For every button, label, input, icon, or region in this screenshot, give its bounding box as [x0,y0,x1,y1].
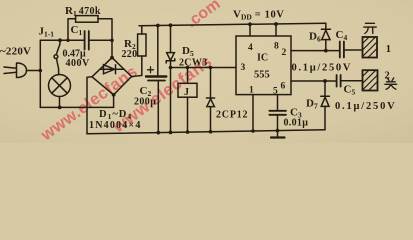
node C3 ground junction [276,129,280,133]
svg-text:400V: 400V [66,58,91,69]
svg-text:0.1μ/250V: 0.1μ/250V [335,101,397,112]
wire pin4 and pin8 stubs [250,24,276,36]
capacitor C3 [269,111,286,115]
label guan (off) chinese [385,78,397,89]
bridge inner diode symbol [100,68,124,70]
op-amp timer IC 555 U1 [236,36,291,95]
node R1 left junction [66,39,69,42]
wire R2 top stub [141,26,143,34]
wire bridge bottom stub [113,95,115,108]
wire relay bottom lead [187,97,189,132]
svg-text:R1470k: R1470k [65,5,101,18]
wire R1 right lead to bridge [98,19,112,58]
svg-text:8: 8 [274,42,279,52]
diode 2CP12 [206,97,214,99]
wire lamp bottom [59,97,61,108]
polarity plus mark C2 [148,67,154,73]
wire D7 bottom lead [324,106,326,129]
node D7 top junction [323,79,327,83]
wire VDD top rail [139,23,326,26]
node bridge top vertex [110,56,114,60]
capacitor C2 electrolytic plates [146,75,166,77]
label kai (on) chinese [364,23,376,33]
node switch junction [58,38,62,42]
AC plug body [17,63,27,78]
wire D5 top lead [170,25,172,52]
node bridge bottom vertex [112,93,116,97]
wire C2 bottom lead [157,81,159,133]
ground symbol [277,131,279,138]
node pin8 rail junction [274,22,278,26]
node 2CP12 top junction [209,66,213,70]
node 2CP12 ground junction [209,130,213,134]
resistor R2 [138,34,146,56]
wire C1 right [89,39,112,41]
capacitor C5 [337,75,341,87]
wire C4 to plate 1 [345,49,363,51]
wire 2CP12 bottom lead [210,107,212,132]
wire R1 left lead [68,19,76,41]
wire AC bottom rail [40,106,113,108]
svg-text:1: 1 [386,44,391,55]
wire ground bottom rail [87,130,325,134]
bridge rectifier D1-D4 diamond [92,58,132,95]
touch plate 1 electrode [363,37,378,58]
node D6 bottom junction [324,49,328,53]
wire 2CP12 top lead [210,68,212,99]
zener diode D5 [167,53,175,61]
wire D5 bottom lead [170,61,172,133]
wire D6 top stub [325,23,327,29]
wire bridge left to ground rail [87,77,92,134]
node plug junction [39,69,43,73]
capacitor C4 [340,42,344,58]
wire top-left horizontal to C1 [40,39,84,41]
node R1 right junction [110,39,114,43]
relay coil J [178,83,197,97]
node C2 ground junction [156,131,160,135]
wire 555 pin2 row [291,50,339,52]
svg-text:2CP12: 2CP12 [216,110,248,121]
svg-text:1N4004×4: 1N4004×4 [89,120,142,131]
svg-text:~220V: ~220V [0,46,31,58]
AC plug prongs [4,67,17,74]
wire bridge right to R2 bottom [132,56,142,77]
node D5 ground junction [169,131,173,135]
svg-text:2: 2 [282,48,287,58]
node lamp-rail junction [58,106,62,110]
node relay ground junction [186,130,190,134]
svg-text:IC: IC [257,53,268,64]
node pin4 rail junction [248,22,252,26]
switch contact J1-1 [56,40,60,54]
diode D7 [321,95,330,97]
svg-text:220: 220 [122,49,138,60]
node pin1 ground junction [251,129,255,133]
wire D7 top lead [324,81,326,96]
diode D6 [321,28,330,30]
capacitor C1 [85,31,89,50]
wire switch to lamp [57,59,59,75]
svg-text:555: 555 [254,70,270,81]
svg-text:VDD= 10V: VDD= 10V [233,9,285,22]
svg-text:0.01μ: 0.01μ [284,118,309,129]
svg-text:200μ: 200μ [134,97,156,108]
wire pin1 down [252,95,254,132]
wire relay top lead [187,68,189,84]
touch plate 2 electrode [363,70,378,90]
wire 555 pin6 row [291,80,336,82]
node pin3 wire left junction [169,66,173,70]
svg-text:4: 4 [248,43,253,53]
svg-text:6: 6 [281,82,286,92]
wire pin5 down [277,95,279,111]
svg-text:0.1μ/250V: 0.1μ/250V [292,63,353,74]
wire left vertical branch [39,40,41,107]
wire D6 bottom lead [325,40,327,51]
wire C5 to plate 2 [342,80,363,82]
lamp EL [49,75,71,97]
wire 555 pin3 row [171,67,237,69]
wire C3 bottom lead [277,115,279,131]
wire plug to node [27,70,41,72]
node C2 top rail junction [156,24,160,28]
node relay top junction [186,66,190,70]
svg-text:3: 3 [241,63,246,73]
svg-text:J: J [184,87,189,98]
resistor R1 [76,16,98,23]
wire C2 top lead [157,26,159,77]
node D5 top rail junction [169,23,173,27]
